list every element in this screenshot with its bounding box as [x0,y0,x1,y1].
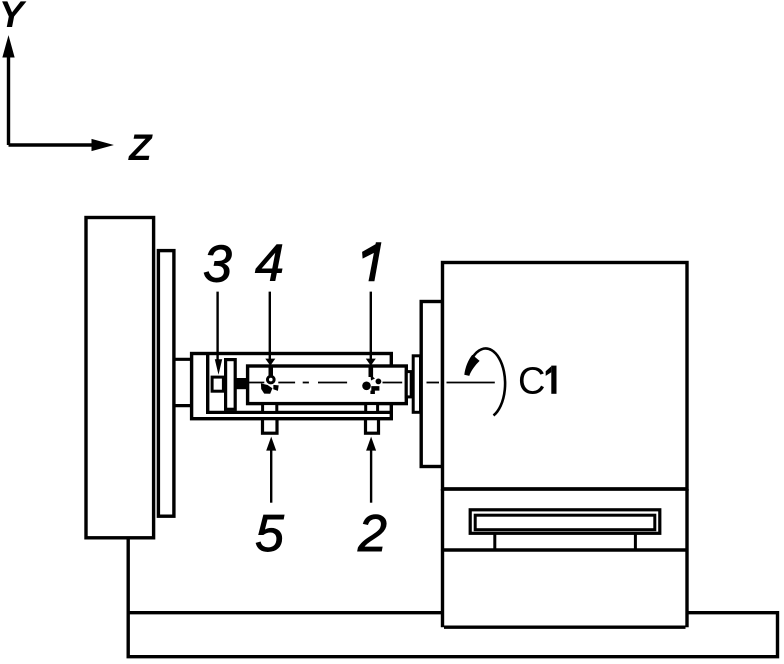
leader 1 [370,292,372,360]
machine base [128,538,777,657]
nut right [366,419,379,434]
spindle shaft stub [406,372,411,397]
slot foot right [634,533,637,550]
fixture outer housing [192,354,392,419]
center symbol item1 [362,366,381,394]
headstock face plate [421,302,442,467]
rotation arc C1 [468,348,506,415]
axis Z arrow [9,140,113,151]
leader 2 [370,448,372,503]
axis Y arrow [3,37,14,145]
vertical bar B [226,360,236,410]
svg-text:C: C [518,361,545,403]
tailstock body [86,218,154,538]
slot inner rect [475,515,655,530]
nut left [263,419,278,434]
label 1 [369,242,382,281]
svg-text:3: 3 [203,236,232,294]
svg-text:4: 4 [255,235,284,293]
slot foot left [493,533,496,550]
svg-text:2: 2 [357,505,387,563]
headstock main box [443,263,688,490]
svg-text:Y: Y [0,0,27,35]
svg-text:5: 5 [255,505,285,563]
clamp item3 box [212,377,223,391]
rotation arrowhead [464,355,479,376]
headstock mid section separator [443,548,688,551]
fixture inner vertical wall A [206,353,209,415]
tailstock face plate [158,251,174,517]
stub connecting plate to fixture (top line) [174,358,193,361]
leader 3 [216,292,218,362]
bolt head right [366,404,378,413]
bolt head left [263,404,277,413]
leader 4 [269,292,271,360]
svg-text:Z: Z [128,127,153,168]
headstock bottom edge [443,489,688,627]
center symbol item4 [261,366,279,394]
leader 5 [270,448,272,503]
spindle centerline dash-dot [237,382,495,384]
spindle flange [413,356,420,413]
workpiece cylinder [248,366,407,404]
stub connecting plate to fixture (bottom line) [174,404,193,407]
solid stub block [236,378,248,389]
fixture base plate line [208,411,392,414]
slot outer rect [470,510,660,534]
